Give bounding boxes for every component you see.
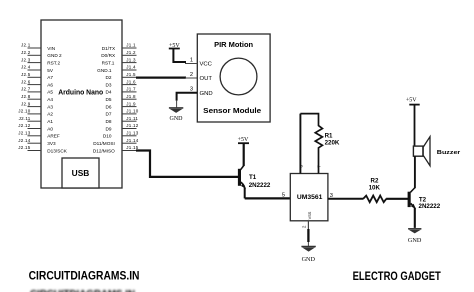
svg-text:GND: GND [170, 116, 184, 122]
svg-text:J1.8: J1.8 [126, 94, 136, 99]
svg-text:2: 2 [190, 72, 193, 78]
pin 5 label marker done above ; pin 3 wire [328, 193, 364, 199]
svg-text:J2.13: J2.13 [18, 131, 31, 136]
svg-text:J2.15: J2.15 [18, 145, 31, 150]
pin J1.14 D11/MOSI [93, 138, 138, 146]
svg-text:J1.12: J1.12 [126, 123, 139, 128]
svg-text:A4: A4 [47, 97, 53, 102]
svg-text:J2.2: J2.2 [21, 50, 31, 55]
svg-text:Sensor Module: Sensor Module [203, 106, 261, 115]
pin J1.7 D4 [106, 87, 137, 95]
pin 2 OUT [190, 72, 213, 82]
pin J2.9 A3 [21, 101, 53, 109]
svg-text:Buzzer: Buzzer [437, 150, 461, 156]
svg-text:D2: D2 [106, 75, 112, 80]
module PIR Motion Sensor [197, 34, 270, 122]
svg-text:RST.2: RST.2 [47, 60, 60, 65]
svg-text:J2.7: J2.7 [21, 87, 31, 92]
pin J1.9 D6 [106, 101, 137, 109]
svg-text:T1: T1 [249, 174, 257, 181]
svg-text:GND.1: GND.1 [97, 68, 112, 73]
pin J2.2 GND 2 [21, 50, 62, 58]
svg-text:J2.9: J2.9 [21, 101, 31, 106]
svg-text:+5V: +5V [406, 97, 417, 103]
pin J2.15 D13/SCK [18, 145, 67, 153]
svg-text:J1.2: J1.2 [126, 50, 136, 55]
pin J2.8 A4 [21, 94, 53, 102]
pin J2.12 A0 [18, 123, 53, 131]
svg-text:GND: GND [200, 91, 213, 97]
wire T1 emitter to U2 pin 5 [245, 193, 291, 199]
svg-text:OUT: OUT [200, 76, 213, 82]
svg-text:CIRCUITDIAGRAMS.IN: CIRCUITDIAGRAMS.IN [29, 270, 140, 283]
svg-text:R2: R2 [371, 177, 379, 184]
svg-text:D10: D10 [103, 134, 112, 139]
pin 3 GND [185, 87, 213, 97]
svg-text:J2.6: J2.6 [21, 79, 31, 84]
pin J2.1 VIN [21, 43, 55, 51]
USB connector [62, 158, 99, 188]
svg-text:J1.13: J1.13 [126, 131, 139, 136]
pin J2.10 A2 [18, 109, 53, 117]
pin J1.10 D7 [106, 109, 139, 117]
svg-text:J2.4: J2.4 [21, 65, 31, 70]
pin J2.3 RST.2 [21, 57, 60, 65]
pin J1.15 D12/MISO [93, 145, 139, 153]
svg-text:A5: A5 [47, 90, 53, 95]
ghost artifact text bottom edge [30, 288, 135, 292]
svg-text:J2.5: J2.5 [21, 72, 31, 77]
pin J2.6 A6 [21, 79, 53, 87]
pin J2.13 AREF [18, 131, 60, 139]
wire R2 to T2 base [386, 198, 408, 200]
pin J1.3 RST.1 [102, 57, 137, 65]
wire buzzer to T2 collector [414, 156, 416, 188]
svg-text:J1.6: J1.6 [126, 79, 136, 84]
watermark CIRCUITDIAGRAMS.IN [29, 270, 140, 283]
svg-text:VIN: VIN [47, 46, 55, 51]
svg-text:R1: R1 [325, 133, 333, 140]
resistor R2 10K [363, 177, 386, 202]
pin J1.4 GND.1 [97, 65, 136, 73]
svg-text:AREF: AREF [47, 134, 60, 139]
pin J1.12 D9 [106, 123, 139, 131]
power +5V T1 [238, 137, 249, 166]
svg-text:D13/SCK: D13/SCK [47, 148, 67, 153]
svg-text:A2: A2 [47, 112, 53, 117]
svg-text:D11/MOSI: D11/MOSI [93, 141, 115, 146]
svg-text:CIRCUITDIAGRAMS.IN: CIRCUITDIAGRAMS.IN [30, 288, 135, 292]
svg-text:D5: D5 [106, 97, 112, 102]
ground T2 [408, 229, 422, 244]
svg-text:2N2222: 2N2222 [249, 182, 271, 189]
svg-text:3: 3 [330, 193, 333, 199]
svg-text:D3: D3 [106, 82, 112, 87]
svg-text:J1.14: J1.14 [126, 138, 139, 143]
svg-text:ELECTRO GADGET: ELECTRO GADGET [353, 270, 441, 283]
svg-text:J1.4: J1.4 [126, 65, 136, 70]
pin J2.7 A5 [21, 87, 53, 95]
svg-text:3V3: 3V3 [47, 141, 56, 146]
svg-text:RST.1: RST.1 [102, 60, 115, 65]
wire D2 to PIR OUT [136, 76, 197, 79]
pin 1 VCC [185, 57, 213, 67]
svg-text:2N2222: 2N2222 [419, 203, 441, 210]
ground PIR [169, 93, 197, 122]
svg-text:J1.11: J1.11 [126, 116, 138, 121]
svg-text:J2.8: J2.8 [21, 94, 31, 99]
power +5V buzzer [406, 97, 420, 146]
pin J2.4 5V [21, 65, 54, 73]
svg-text:220K: 220K [325, 140, 340, 147]
svg-text:D7: D7 [106, 112, 112, 117]
svg-text:PIR Motion: PIR Motion [214, 40, 253, 49]
svg-text:5: 5 [282, 193, 285, 199]
svg-text:VCC: VCC [200, 62, 213, 68]
resistor R1 220K [300, 114, 340, 174]
svg-text:2: 2 [301, 225, 306, 228]
svg-text:VSS: VSS [307, 211, 312, 219]
svg-text:+5V: +5V [238, 137, 249, 143]
svg-text:UM3561: UM3561 [297, 194, 323, 201]
svg-text:USB: USB [72, 168, 90, 178]
svg-text:A3: A3 [47, 104, 53, 109]
svg-text:J1.1: J1.1 [126, 43, 136, 48]
pin J2.5 A7 [21, 72, 53, 80]
pin J1.8 D5 [106, 94, 137, 102]
pin J2.11 A1 [19, 116, 54, 124]
svg-text:GND: GND [302, 256, 316, 263]
svg-text:D12/MISO: D12/MISO [93, 148, 115, 153]
wire D12/MISO to T1 base [136, 151, 239, 177]
svg-text:GND: GND [408, 237, 422, 244]
svg-text:J1.7: J1.7 [126, 87, 136, 92]
IC U1 Arduino Nano body [41, 20, 122, 188]
pin 7 label [317, 165, 322, 168]
pin J1.6 D3 [106, 79, 137, 87]
svg-text:Arduino Nano: Arduino Nano [58, 87, 103, 96]
svg-text:J1.10: J1.10 [126, 109, 139, 114]
watermark ELECTRO GADGET [353, 270, 441, 283]
svg-text:J2.14: J2.14 [18, 138, 31, 143]
svg-text:10K: 10K [369, 185, 381, 192]
pin J1.2 D0/RX [101, 50, 136, 58]
svg-text:A1: A1 [47, 119, 53, 124]
power +5V PIR [169, 43, 186, 62]
svg-text:D0/RX: D0/RX [101, 53, 116, 58]
svg-text:A0: A0 [47, 126, 53, 131]
pin J1.5 D2 [106, 72, 137, 80]
IC U2 UM3561 [290, 164, 328, 220]
svg-text:J1.3: J1.3 [126, 57, 136, 62]
pin 8 wire [299, 114, 301, 174]
transistor T2 2N2222 [408, 188, 441, 228]
pin J1.1 D1/TX [102, 43, 137, 51]
svg-text:J1.9: J1.9 [126, 101, 136, 106]
svg-text:J1.5: J1.5 [126, 72, 136, 77]
svg-text:J2.1: J2.1 [21, 43, 31, 48]
svg-text:A6: A6 [47, 82, 53, 87]
svg-text:A7: A7 [47, 75, 53, 80]
svg-text:J2.10: J2.10 [18, 109, 31, 114]
svg-text:J2.3: J2.3 [21, 57, 31, 62]
transistor T1 2N2222 [238, 166, 271, 199]
svg-text:J2.12: J2.12 [18, 123, 31, 128]
pin J2.14 3V3 [18, 138, 56, 146]
svg-text:J2.11: J2.11 [19, 116, 31, 121]
pin J1.13 D10 [103, 131, 139, 139]
label Arduino Nano [58, 87, 103, 96]
svg-text:D6: D6 [106, 104, 112, 109]
pin J1.11 D8 [106, 116, 139, 124]
buzzer LS1 speaker [413, 137, 461, 166]
pin 2 VSS wire and ground U2 [301, 211, 315, 263]
svg-text:D4: D4 [106, 90, 112, 95]
svg-text:1: 1 [190, 57, 193, 63]
svg-text:D8: D8 [106, 119, 112, 124]
svg-text:D1/TX: D1/TX [102, 46, 116, 51]
svg-text:5V: 5V [47, 68, 54, 73]
svg-text:D9: D9 [106, 126, 112, 131]
svg-text:3: 3 [190, 87, 193, 93]
svg-text:GND 2: GND 2 [47, 53, 62, 58]
